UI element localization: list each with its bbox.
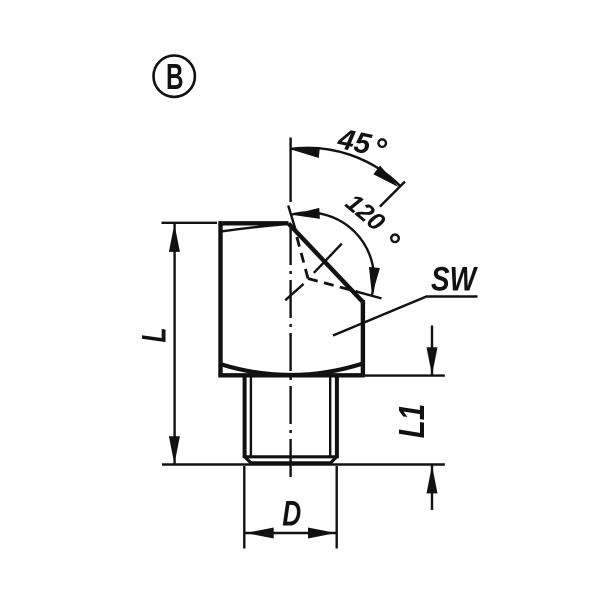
hidden countersink upper edge (dashed): [295, 229, 308, 278]
svg-text:SW: SW: [431, 260, 478, 298]
countersink upper edge extension line: [288, 206, 296, 234]
L dimension line: [173, 224, 175, 464]
L1 upper arrowhead: [427, 347, 438, 375]
45 degree label: [334, 123, 386, 161]
L1 top extension line: [365, 374, 445, 376]
45 arc start arrowhead: [291, 144, 320, 158]
L bottom arrowhead: [169, 436, 180, 464]
L1 dimension line upper segment: [431, 326, 433, 376]
vertical centerline of part: [289, 138, 291, 203]
countersink axis centerline: [314, 244, 342, 273]
45 arc end arrowhead: [373, 166, 402, 192]
120 degree label: [340, 189, 399, 243]
body 45 degree cut edge: [289, 224, 363, 303]
120 degree dimension arc: [291, 212, 374, 295]
stud chamfer right corner: [331, 457, 337, 463]
stud bottom face: [251, 461, 331, 465]
L top arrowhead: [169, 224, 180, 252]
120 arc end arrowhead: [367, 267, 380, 296]
D left arrowhead: [246, 528, 274, 539]
45 degree dimension arc: [291, 148, 401, 186]
threaded stud left outer line: [243, 375, 247, 458]
hidden countersink lower edge (dashed): [308, 279, 357, 292]
svg-text:L: L: [135, 328, 173, 343]
thread minor diameter right: [329, 377, 331, 457]
body outline top face: [218, 221, 288, 225]
D dimension line: [246, 532, 337, 534]
body left edge: [218, 223, 222, 375]
SW leader line: [333, 297, 478, 336]
vertical centerline dashed part: [289, 227, 291, 479]
countersink axis extension line: [380, 182, 405, 207]
stud chamfer ring line: [245, 455, 337, 458]
body right edge: [361, 300, 365, 375]
thread minor diameter left: [250, 377, 252, 457]
D extension line left: [243, 466, 245, 549]
threaded stud right outer line: [335, 375, 339, 458]
bottom silhouette arc: [222, 364, 363, 376]
L1 dimension line lower segment: [431, 465, 433, 510]
stud chamfer left corner: [245, 457, 251, 463]
L dimension extension line top: [162, 222, 218, 224]
countersink axis centerline lower dash: [285, 284, 303, 300]
svg-text:D: D: [282, 495, 301, 534]
svg-text:L1: L1: [391, 404, 432, 439]
countersink lower edge extension line: [356, 291, 382, 298]
D right arrowhead: [308, 528, 336, 539]
view label circle B: [154, 55, 195, 96]
svg-text:B: B: [166, 56, 184, 97]
L1 lower arrowhead: [427, 465, 438, 493]
120 arc start arrowhead: [291, 208, 320, 220]
D extension line right: [336, 466, 338, 549]
L / L1 bottom extension line: [162, 463, 445, 465]
body bottom line: [218, 373, 365, 377]
top face near edge curve: [220, 224, 285, 231]
